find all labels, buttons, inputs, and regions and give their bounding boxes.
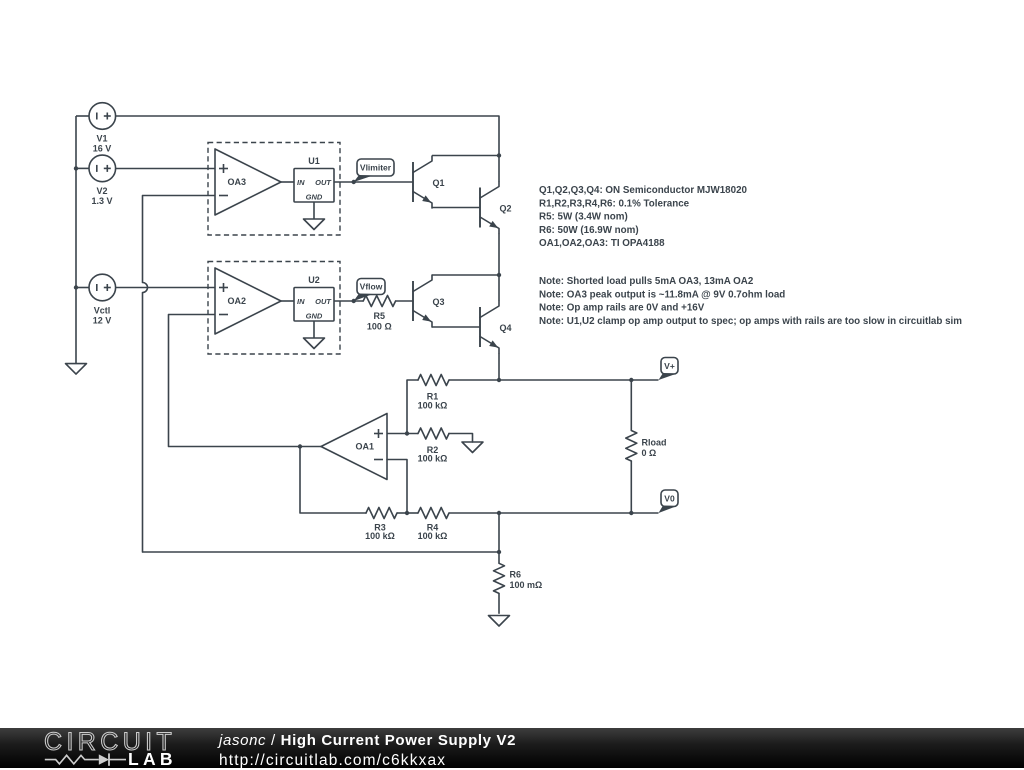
svg-text:Q1: Q1: [432, 178, 444, 188]
wire R1 left lead: [407, 380, 418, 434]
node flag V0: [659, 490, 679, 513]
node flag Vlimiter: [354, 159, 394, 182]
svg-text:Rload: Rload: [642, 438, 667, 448]
dashed box U1 subcircuit: [208, 143, 340, 236]
dashed box U2 subcircuit: [208, 262, 340, 355]
wire OA1 plus input: [387, 433, 418, 435]
CircuitLab logo: [0, 728, 200, 768]
node junction Vctl-left: [74, 285, 78, 289]
svg-text:Vlimiter: Vlimiter: [360, 163, 392, 173]
voltage source V1: [89, 103, 116, 130]
svg-text:R1,R2,R3,R4,R6: 0.1% Tolerance: R1,R2,R3,R4,R6: 0.1% Tolerance: [539, 198, 690, 209]
wire OA3 output to U1 IN: [281, 181, 294, 183]
note text block notes: [539, 276, 962, 327]
svg-text:OUT: OUT: [315, 297, 332, 306]
ground U1: [304, 219, 325, 230]
ground U2: [304, 338, 325, 349]
wire Q3 collector to junction: [432, 274, 499, 276]
svg-text:U1: U1: [308, 156, 320, 166]
wire OA1 inverting input: [387, 460, 407, 514]
label R6 value: [510, 570, 543, 591]
svg-text:V1: V1: [96, 134, 107, 144]
node junction OA1 output feedback: [298, 444, 302, 448]
node junction R3-R4: [405, 511, 409, 515]
svg-text:V2: V2: [96, 186, 107, 196]
wire OA2 feedback: [169, 315, 301, 447]
op-amp OA1: [321, 414, 387, 480]
wire R5 to Q3 base: [396, 300, 413, 302]
node junction Rload bottom: [629, 511, 633, 515]
wire R4 to V0 rail: [449, 512, 499, 514]
svg-text:Q4: Q4: [499, 323, 511, 333]
svg-text:V+: V+: [664, 361, 675, 371]
resistor R3: [366, 508, 397, 519]
wire V2 to OA3 noninverting input: [116, 168, 215, 170]
svg-text:100 kΩ: 100 kΩ: [418, 401, 448, 411]
node junction Rload top: [629, 378, 633, 382]
node junction Q3-Q4 collectors: [497, 273, 501, 277]
svg-text:V0: V0: [664, 493, 675, 503]
svg-text:Note: OA3 peak output is ~11.8: Note: OA3 peak output is ~11.8mA @ 9V 0.…: [539, 289, 785, 300]
wire V2 left stub: [76, 167, 89, 169]
label R5 value: [367, 311, 392, 332]
wire V+ rail: [499, 379, 659, 381]
svg-text:Q1,Q2,Q3,Q4: ON Semiconductor: Q1,Q2,Q3,Q4: ON Semiconductor MJW18020: [539, 185, 748, 196]
label Rload value: [642, 438, 667, 459]
resistor Rload: [626, 380, 637, 513]
node junction V2-left: [74, 166, 78, 170]
node flag V+: [659, 358, 679, 381]
svg-text:Vctl: Vctl: [94, 306, 111, 316]
wire R2 to ground: [449, 434, 473, 443]
node junction R4-V0: [497, 511, 501, 515]
wire OA1 output: [300, 446, 321, 448]
wire Q3 emitter to Q4 base: [432, 326, 480, 328]
svg-text:Note: U1,U2 clamp op amp outpu: Note: U1,U2 clamp op amp output to spec;…: [539, 316, 962, 327]
wire OA3 inverting input: [143, 195, 216, 197]
wire U1 GND pin: [313, 202, 315, 219]
svg-text:100 Ω: 100 Ω: [367, 322, 392, 332]
svg-text:Note: Shorted load pulls 5mA O: Note: Shorted load pulls 5mA OA3, 13mA O…: [539, 276, 754, 287]
node junction OA1 plus input: [405, 431, 409, 435]
svg-text:1.3 V: 1.3 V: [91, 196, 112, 206]
svg-text:0 Ω: 0 Ω: [642, 448, 657, 458]
svg-text:OA1: OA1: [356, 442, 375, 452]
op-amp OA2: [215, 268, 281, 334]
svg-text:Q2: Q2: [499, 204, 511, 214]
transistor Q3: [413, 275, 445, 327]
svg-text:IN: IN: [297, 297, 305, 306]
node junction R6 top: [497, 550, 501, 554]
label Vctl value: [93, 306, 112, 326]
svg-text:16 V: 16 V: [93, 144, 112, 154]
resistor R1: [418, 375, 449, 386]
node junction Q1-Q2 collectors: [497, 153, 501, 157]
svg-text:OA1,OA2,OA3: TI OPA4188: OA1,OA2,OA3: TI OPA4188: [539, 238, 665, 249]
wire OA1 output down to R3: [300, 447, 366, 514]
voltage source V2: [89, 155, 116, 182]
svg-text:OA3: OA3: [227, 177, 246, 187]
transistor Q1: [413, 156, 445, 208]
ground left bus: [66, 364, 87, 375]
svg-text:OUT: OUT: [315, 178, 332, 187]
wire U2 GND pin: [313, 321, 315, 338]
resistor R5: [363, 296, 395, 307]
wire left vertical bus: [75, 116, 77, 364]
svg-text:12 V: 12 V: [93, 316, 112, 326]
clamp U1: [294, 156, 334, 202]
svg-text:100 kΩ: 100 kΩ: [418, 531, 448, 541]
label R2 value: [418, 445, 448, 463]
wire Q4 collector up: [498, 275, 500, 301]
node flag Vflow: [354, 279, 385, 302]
clamp U2: [294, 275, 334, 321]
svg-text:Q3: Q3: [432, 297, 444, 307]
node Vlimiter junction: [352, 180, 356, 184]
wire Q4 emitter down to V+ rail: [498, 353, 500, 380]
wire top rail from V1 to collectors: [116, 116, 499, 156]
op-amp OA3: [215, 149, 281, 215]
label R1 value: [418, 392, 448, 411]
wire U2 OUT to R5: [334, 300, 363, 302]
ground R6: [489, 616, 510, 627]
wire V1 left stub: [76, 115, 89, 117]
svg-text:100 mΩ: 100 mΩ: [510, 580, 543, 590]
svg-text:IN: IN: [297, 178, 305, 187]
svg-text:100 kΩ: 100 kΩ: [365, 531, 395, 541]
wire Vctl to OA2 noninverting input: [116, 287, 215, 289]
node Vflow junction: [352, 299, 356, 303]
wire Q1 emitter to Q2 base: [432, 207, 480, 209]
transistor Q4: [480, 301, 512, 353]
svg-text:Note: Op amp rails are 0V and: Note: Op amp rails are 0V and +16V: [539, 303, 705, 314]
wire V0 rail: [499, 512, 659, 514]
ground R2: [462, 442, 483, 453]
resistor R6: [494, 552, 505, 614]
svg-text:LAB: LAB: [128, 749, 177, 768]
wire OA3 inverting feedback bottom: [143, 551, 500, 553]
svg-text:GND: GND: [306, 312, 323, 321]
resistor R4: [418, 508, 449, 519]
node junction emitter-R1-V+: [497, 378, 501, 382]
label R3 value: [365, 522, 395, 541]
wire OA2 output to U2 IN: [281, 300, 294, 302]
wire V0 down to R6: [498, 513, 500, 552]
svg-text:R5: R5: [374, 311, 386, 321]
svg-text:R6: R6: [510, 570, 522, 580]
wire Vctl left stub: [76, 287, 89, 289]
svg-text:OA2: OA2: [227, 296, 246, 306]
voltage source Vctl: [89, 274, 116, 301]
transistor Q2: [480, 182, 512, 234]
label R4 value: [418, 522, 448, 541]
wire R1 right lead: [449, 379, 499, 381]
resistor R2: [418, 428, 449, 439]
svg-text:R5: 5W (3.4W nom): R5: 5W (3.4W nom): [539, 212, 628, 223]
note text block parts: [539, 185, 748, 249]
label V1 value: [93, 134, 112, 154]
wire Q2 emitter down: [498, 234, 500, 276]
wire R4 left lead: [407, 512, 418, 514]
wire OA3 feedback vertical with hop: [143, 196, 148, 553]
wire Q2 collector up: [498, 156, 500, 182]
wire U1 OUT to Q1 base: [334, 181, 413, 183]
wire OA2 inverting input: [169, 314, 216, 316]
svg-text:Vflow: Vflow: [360, 282, 383, 292]
svg-text:U2: U2: [308, 275, 320, 285]
wire R3 to R4 junction: [397, 512, 407, 514]
svg-text:100 kΩ: 100 kΩ: [418, 454, 448, 464]
label V2 value: [91, 186, 112, 206]
svg-text:GND: GND: [306, 193, 323, 202]
svg-text:R6: 50W (16.9W nom): R6: 50W (16.9W nom): [539, 225, 639, 236]
wire Q1 collector to rail: [432, 155, 499, 157]
